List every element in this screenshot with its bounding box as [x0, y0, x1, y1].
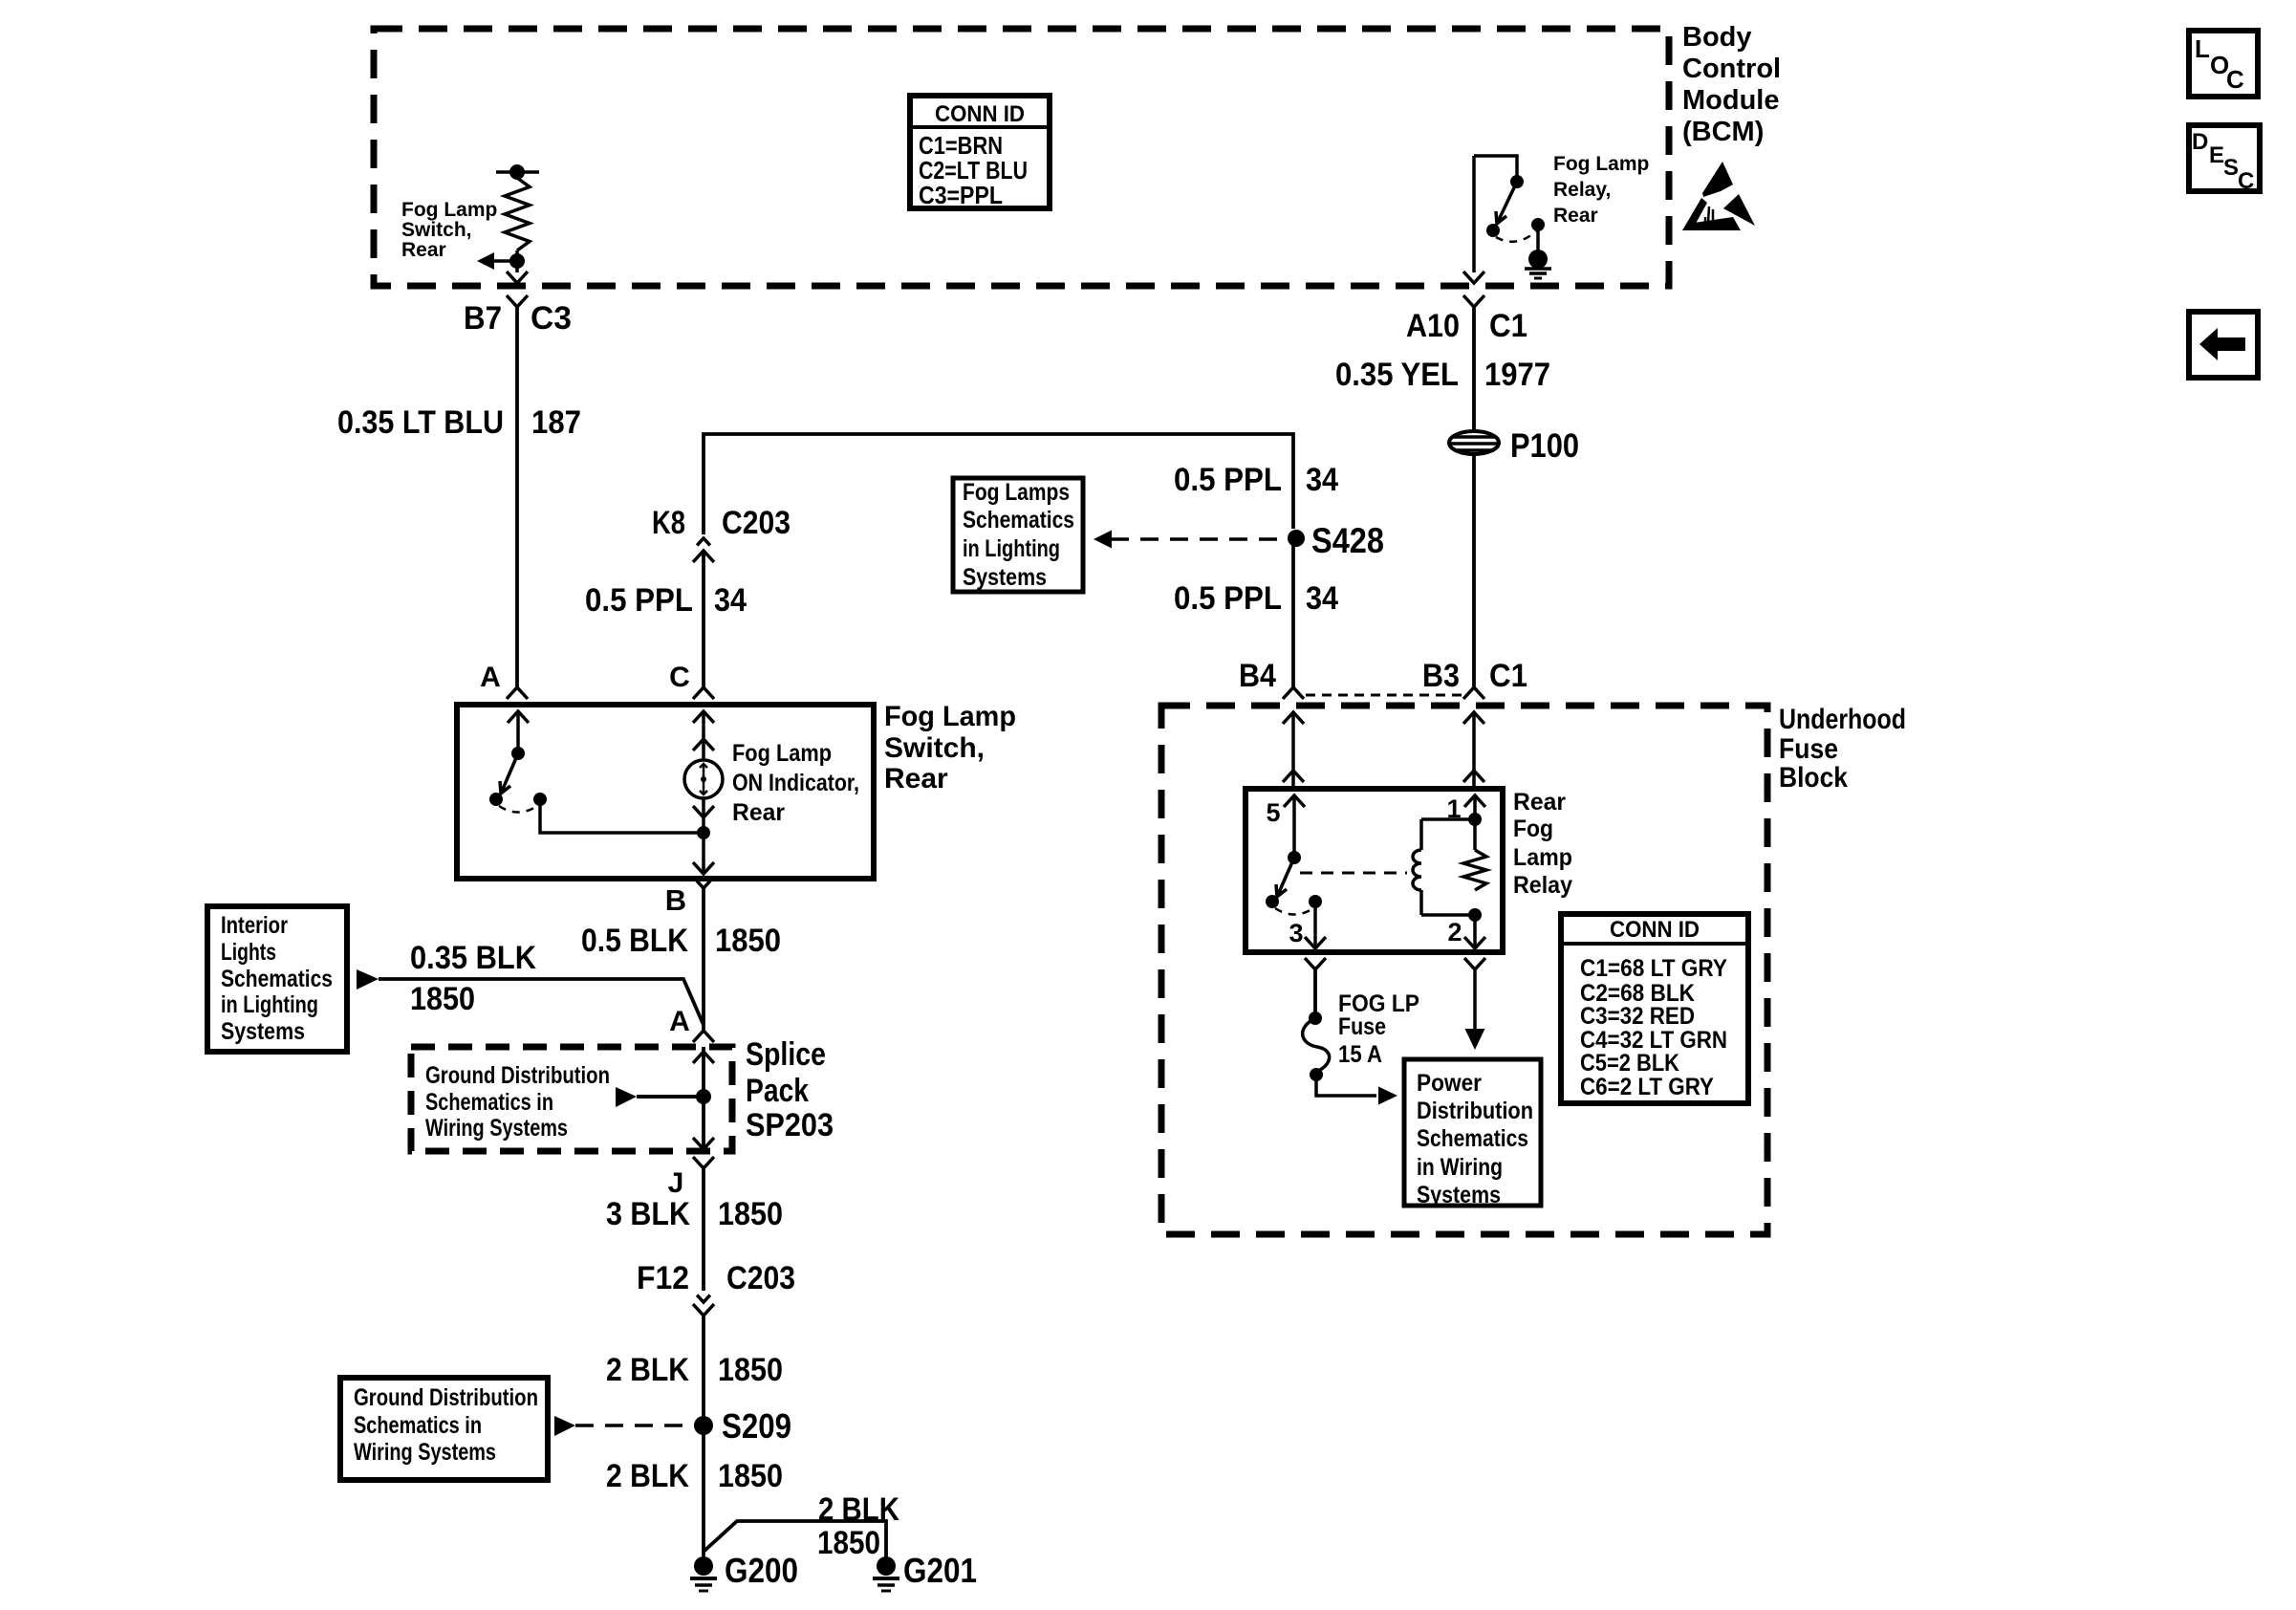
junction dot bottom of resistor [509, 253, 525, 269]
svg-text:Rear: Rear [1553, 205, 1598, 227]
wire: 3 BLK 1850 [702, 1168, 705, 1291]
svg-text:0.35 YEL: 0.35 YEL [1335, 357, 1459, 393]
svg-text:Fog Lamps: Fog Lamps [963, 479, 1070, 506]
Body Control Module dashed outline [374, 29, 1669, 286]
arrowhead from ground dist box [554, 1416, 575, 1436]
down arrow at BCM bottom edge (right) [1463, 272, 1484, 283]
wire: 0.5 BLK 1850 [702, 888, 705, 1030]
coil bottom bar [1421, 913, 1475, 917]
ESD sensitivity symbol [1682, 162, 1755, 230]
svg-text:Switch,: Switch, [884, 732, 985, 764]
splice arrowhead [616, 1087, 637, 1107]
svg-text:Fog Lamp: Fog Lamp [1553, 153, 1649, 175]
svg-text:5: 5 [1266, 798, 1280, 827]
relay pivot dot [1510, 175, 1524, 188]
BCM title text [1682, 22, 1781, 147]
chevron above relay box (B3) [1463, 771, 1484, 782]
junction dot top of resistor [509, 164, 525, 180]
arrow into box pin5 [1284, 795, 1305, 807]
svg-text:C203: C203 [722, 505, 791, 541]
svg-text:1850: 1850 [718, 1458, 783, 1494]
svg-text:S209: S209 [722, 1406, 791, 1446]
svg-text:0.5 PPL: 0.5 PPL [1174, 462, 1282, 498]
svg-text:Switch,: Switch, [401, 219, 472, 241]
wire: 0.35 LT BLU 187 [515, 307, 519, 687]
coil top bar [1421, 817, 1475, 821]
svg-text:0.5 BLK: 0.5 BLK [581, 923, 688, 959]
junction dot on C wire [697, 826, 710, 839]
svg-text:G200: G200 [725, 1551, 798, 1590]
connector B3 chevron [1463, 687, 1484, 699]
svg-text:Rear: Rear [401, 239, 446, 261]
wire: relay top bar [1474, 156, 1517, 178]
svg-text:C1=68 LT GRY: C1=68 LT GRY [1580, 955, 1727, 982]
DESC button box [2189, 125, 2260, 194]
dashed throw arc [1496, 231, 1536, 242]
svg-text:Fog Lamp: Fog Lamp [884, 701, 1016, 732]
ground G201 [877, 1556, 896, 1576]
svg-text:Ground Distribution: Ground Distribution [354, 1384, 538, 1411]
svg-text:1850: 1850 [715, 923, 781, 959]
svg-text:Schematics: Schematics [963, 507, 1074, 533]
connector chevron below relay pin2 [1464, 958, 1485, 969]
svg-text:S428: S428 [1311, 521, 1384, 560]
junction dot pin1 branch [1468, 813, 1482, 826]
arrowhead pointing left (switch wiper) [477, 252, 494, 270]
svg-text:187: 187 [531, 404, 581, 441]
wire: 0.5 PPL horizontal run [704, 434, 1293, 534]
junction dot pin2 branch [1468, 908, 1482, 922]
svg-text:A: A [480, 662, 501, 693]
svg-text:Systems: Systems [221, 1018, 305, 1045]
svg-text:C203: C203 [726, 1260, 795, 1296]
svg-text:Module: Module [1682, 85, 1780, 116]
svg-text:Body: Body [1682, 22, 1752, 53]
arrowhead to power distribution [1378, 1087, 1397, 1105]
splice junction dot [696, 1089, 711, 1104]
wire: resistor bottom down to BCM edge [515, 250, 519, 272]
wire: 0.5 PPL 34 down to switch C [702, 552, 705, 687]
wire: pin3 to fuse [1313, 969, 1317, 1013]
wire: C stub inside box [702, 711, 705, 760]
svg-text:15 A: 15 A [1338, 1041, 1382, 1068]
svg-text:Lights: Lights [221, 939, 276, 966]
svg-text:0.5 PPL: 0.5 PPL [1174, 580, 1282, 617]
down arrow at box bottom (B) [693, 862, 714, 874]
svg-text:C: C [669, 662, 690, 693]
svg-text:in Wiring: in Wiring [1417, 1154, 1503, 1181]
svg-text:Block: Block [1779, 762, 1848, 794]
svg-text:34: 34 [1306, 462, 1338, 498]
svg-text:A10: A10 [1406, 308, 1460, 344]
chevron above indicator [693, 739, 714, 751]
svg-text:Distribution: Distribution [1417, 1098, 1533, 1124]
resistor inside relay [1463, 850, 1486, 890]
switch right contact dot [533, 793, 547, 806]
wire: 0.5 PPL 34 S428 to B4 [1291, 540, 1295, 687]
svg-text:C: C [2226, 65, 2244, 94]
svg-text:(BCM): (BCM) [1682, 117, 1764, 147]
svg-text:D: D [2192, 129, 2208, 155]
svg-text:1850: 1850 [718, 1352, 783, 1388]
wire: A stub inside box [516, 711, 520, 750]
wire: splice stub [637, 1095, 704, 1099]
svg-text:in Lighting: in Lighting [221, 991, 318, 1018]
down arrow at BCM bottom edge (left) [507, 272, 528, 283]
down arrow at splice box bottom [693, 1138, 714, 1149]
svg-text:Splice: Splice [746, 1036, 826, 1073]
down arrow at box bottom pin3 [1305, 937, 1326, 948]
svg-text:Rear: Rear [884, 763, 948, 794]
svg-text:3 BLK: 3 BLK [606, 1196, 690, 1232]
svg-text:Fog Lamp: Fog Lamp [401, 199, 497, 221]
wire: 0.35 BLK 1850 horizontal [379, 979, 704, 1025]
switch arm [501, 753, 518, 794]
svg-text:ON Indicator,: ON Indicator, [732, 770, 859, 796]
wire: 0.35 YEL 1977 [1472, 307, 1476, 687]
relay right contact dot [1309, 895, 1322, 908]
svg-text:Power: Power [1417, 1070, 1482, 1097]
svg-text:1850: 1850 [718, 1196, 783, 1232]
switch pivot dot [511, 747, 525, 760]
svg-text:2 BLK: 2 BLK [606, 1352, 689, 1388]
svg-text:0.35 BLK: 0.35 BLK [410, 940, 536, 976]
svg-text:S: S [2223, 155, 2239, 181]
svg-text:B: B [665, 883, 686, 917]
Underhood Fuse Block title [1779, 704, 1906, 794]
fog lamps schematics box [953, 478, 1083, 592]
wire: indicator to junction to box bottom [702, 798, 705, 872]
svg-text:J: J [668, 1167, 684, 1199]
svg-text:Fuse: Fuse [1779, 733, 1838, 765]
switch left contact dot [489, 793, 503, 806]
up arrow below edge (B3) [1463, 712, 1484, 724]
wire: fuse to power distribution arrow [1316, 1075, 1376, 1096]
FOG LP fuse symbol [1309, 1012, 1322, 1025]
svg-text:Systems: Systems [963, 564, 1047, 591]
down arrow at box bottom pin2 [1464, 937, 1485, 948]
ground (BCM relay) [1528, 250, 1548, 269]
svg-text:E: E [2209, 142, 2224, 168]
svg-text:Systems: Systems [1417, 1182, 1501, 1208]
wire: relay output down to BCM edge [1472, 156, 1476, 272]
svg-text:1850: 1850 [410, 981, 475, 1017]
svg-text:Interior: Interior [221, 912, 288, 939]
svg-text:B7: B7 [464, 300, 502, 337]
svg-text:K8: K8 [652, 505, 685, 541]
wire: pin1 stub [1473, 795, 1477, 850]
interior lights schematics box [207, 906, 347, 1052]
svg-text:C3=PPL: C3=PPL [919, 181, 1003, 209]
wire: pin2 stub down [1473, 915, 1477, 946]
svg-text:in Lighting: in Lighting [963, 535, 1060, 562]
wire: B4 into fuse block [1291, 712, 1295, 788]
svg-text:C6=2 LT GRY: C6=2 LT GRY [1580, 1074, 1714, 1100]
svg-text:Underhood: Underhood [1779, 704, 1906, 735]
wire: contact L-path to C wire [540, 799, 704, 833]
svg-text:Schematics: Schematics [221, 966, 333, 992]
dashed throw arc (switch) [499, 806, 537, 813]
svg-text:Pack: Pack [746, 1073, 809, 1109]
Splice Pack SP203 label [746, 1036, 834, 1143]
connector A chevron (switch) [507, 687, 528, 699]
relay switch arm with arrowhead [1497, 182, 1517, 224]
svg-text:Wiring Systems: Wiring Systems [354, 1439, 496, 1466]
dashed throw arc (relay) [1275, 908, 1313, 915]
svg-text:2: 2 [1447, 918, 1462, 946]
svg-text:Fuse: Fuse [1338, 1013, 1386, 1040]
Fog Lamp ON Indicator bulb [684, 760, 723, 798]
relay switch pivot dot [1288, 851, 1301, 864]
splice S209 dot [694, 1416, 713, 1435]
ground G200 [694, 1556, 713, 1576]
coil left branch [1419, 819, 1423, 850]
arrowhead pointing left (fog lamps ref) [1094, 531, 1112, 549]
relay switch arm [1277, 858, 1294, 897]
connector B chevron [693, 877, 714, 888]
connector F12/C203 double chevron [697, 1295, 710, 1302]
arrowhead from interior lights box [357, 969, 379, 990]
chevron above relay box (B4) [1283, 771, 1304, 782]
svg-text:Fog Lamp: Fog Lamp [732, 740, 832, 767]
connector A chevron (splice) [693, 1031, 714, 1042]
connector A10/C1 chevron [1463, 295, 1484, 307]
svg-text:Fog: Fog [1513, 816, 1553, 842]
wire: through splice box [702, 1047, 705, 1151]
svg-text:Control: Control [1682, 54, 1781, 84]
wire: pin5 stub [1292, 795, 1296, 854]
arrow into box pin1 [1464, 795, 1485, 807]
svg-text:B3: B3 [1422, 658, 1460, 694]
wire: branch to G201 [704, 1521, 886, 1557]
relay right contact dot [1531, 218, 1545, 231]
svg-text:Schematics: Schematics [1417, 1125, 1528, 1152]
svg-text:Rear: Rear [732, 799, 785, 826]
svg-text:34: 34 [714, 582, 747, 619]
dashed actuator line [1300, 872, 1407, 875]
dashed reference line to S209 [575, 1424, 696, 1427]
svg-text:Schematics in: Schematics in [425, 1089, 553, 1116]
arrow into box (A) [508, 711, 529, 723]
svg-text:Lamp: Lamp [1513, 844, 1572, 871]
dashed reference line to fog lamps schematics [1111, 537, 1288, 541]
fog lamp relay, rear (BCM internal) label [1553, 153, 1649, 227]
svg-text:Relay: Relay [1513, 872, 1572, 899]
connector K8/C203 double chevron [697, 538, 710, 545]
wire: contact to ground [1536, 225, 1540, 250]
arrow into splice box [693, 1052, 714, 1063]
resistor (fog lamp switch rheostat) [505, 178, 530, 250]
svg-text:Ground Distribution: Ground Distribution [425, 1062, 610, 1089]
LOC button box [2189, 31, 2258, 97]
FOG LP Fuse 15 A label [1338, 990, 1419, 1068]
relay left contact dot [1266, 895, 1279, 908]
svg-text:0.35 LT BLU: 0.35 LT BLU [337, 404, 504, 441]
power distribution schematics box [1404, 1059, 1541, 1208]
wire: top bar of BCM switch resistor [496, 170, 539, 174]
Splice Pack dashed box [411, 1047, 732, 1151]
back-arrow button box [2189, 312, 2258, 378]
ground distribution schematics box (S209) [340, 1378, 548, 1480]
svg-text:A: A [669, 1006, 690, 1037]
relay left contact dot [1486, 224, 1500, 237]
Underhood Fuse Block dashed outline [1161, 706, 1767, 1234]
connector B7/C3 chevron [507, 295, 528, 307]
grommet P100 [1449, 431, 1499, 454]
svg-text:Wiring Systems: Wiring Systems [425, 1115, 568, 1142]
wire: B3 into fuse block [1472, 712, 1476, 788]
svg-text:1977: 1977 [1484, 357, 1550, 393]
svg-text:2 BLK: 2 BLK [606, 1458, 689, 1494]
svg-text:CONN ID: CONN ID [935, 101, 1025, 127]
svg-text:2 BLK: 2 BLK [818, 1491, 899, 1528]
Rear Fog Lamp Relay label [1513, 789, 1572, 899]
wire: stub to left arrow [492, 259, 517, 263]
svg-text:C: C [2238, 168, 2254, 194]
chevron below indicator [693, 806, 714, 817]
svg-text:G201: G201 [903, 1551, 977, 1590]
wire: right contact down to pin3 [1313, 902, 1317, 946]
fine dashed connector line B4-B3 [1306, 694, 1462, 697]
svg-text:B4: B4 [1239, 658, 1276, 694]
svg-text:P100: P100 [1510, 427, 1579, 465]
svg-text:L: L [2195, 34, 2210, 63]
Fog Lamp ON Indicator label [732, 740, 859, 826]
svg-text:C5=2 BLK: C5=2 BLK [1580, 1050, 1679, 1077]
svg-text:1850: 1850 [817, 1525, 880, 1561]
svg-text:Relay,: Relay, [1553, 179, 1611, 201]
splice S428 dot [1288, 530, 1305, 547]
fog lamp switch (BCM internal) label [401, 199, 497, 261]
svg-text:Rear: Rear [1513, 789, 1566, 816]
Fog Lamp Switch, Rear title [884, 701, 1016, 794]
ground distribution text (splice) [425, 1062, 610, 1142]
connector C chevron (switch) [693, 687, 714, 699]
CONN ID table (fuse block) [1561, 914, 1748, 1103]
svg-text:Schematics in: Schematics in [354, 1412, 482, 1439]
svg-text:SP203: SP203 [746, 1107, 834, 1143]
svg-text:C3=32 RED: C3=32 RED [1580, 1003, 1695, 1030]
connector chevron below relay pin3 [1305, 958, 1326, 969]
wire: pin2 output [1473, 969, 1477, 1031]
connector B4 chevron [1283, 687, 1304, 699]
svg-text:F12: F12 [637, 1260, 689, 1296]
Rear Fog Lamp Relay box [1245, 789, 1503, 952]
svg-text:0.5 PPL: 0.5 PPL [585, 582, 693, 619]
wire: 2 BLK 1850 upper [702, 1316, 705, 1558]
CONN ID table (BCM) [910, 96, 1050, 209]
up arrow below edge (B4) [1283, 712, 1304, 724]
svg-text:CONN ID: CONN ID [1610, 917, 1700, 943]
arrow into box (C) [693, 711, 714, 723]
solid down arrowhead pin2 [1465, 1029, 1485, 1050]
svg-text:C1: C1 [1489, 308, 1527, 344]
svg-text:34: 34 [1306, 580, 1338, 617]
Fog Lamp Switch box [457, 705, 874, 879]
svg-text:C1: C1 [1489, 658, 1527, 694]
svg-text:C3: C3 [531, 300, 572, 337]
svg-text:3: 3 [1289, 919, 1303, 947]
connector J chevron [693, 1157, 714, 1168]
